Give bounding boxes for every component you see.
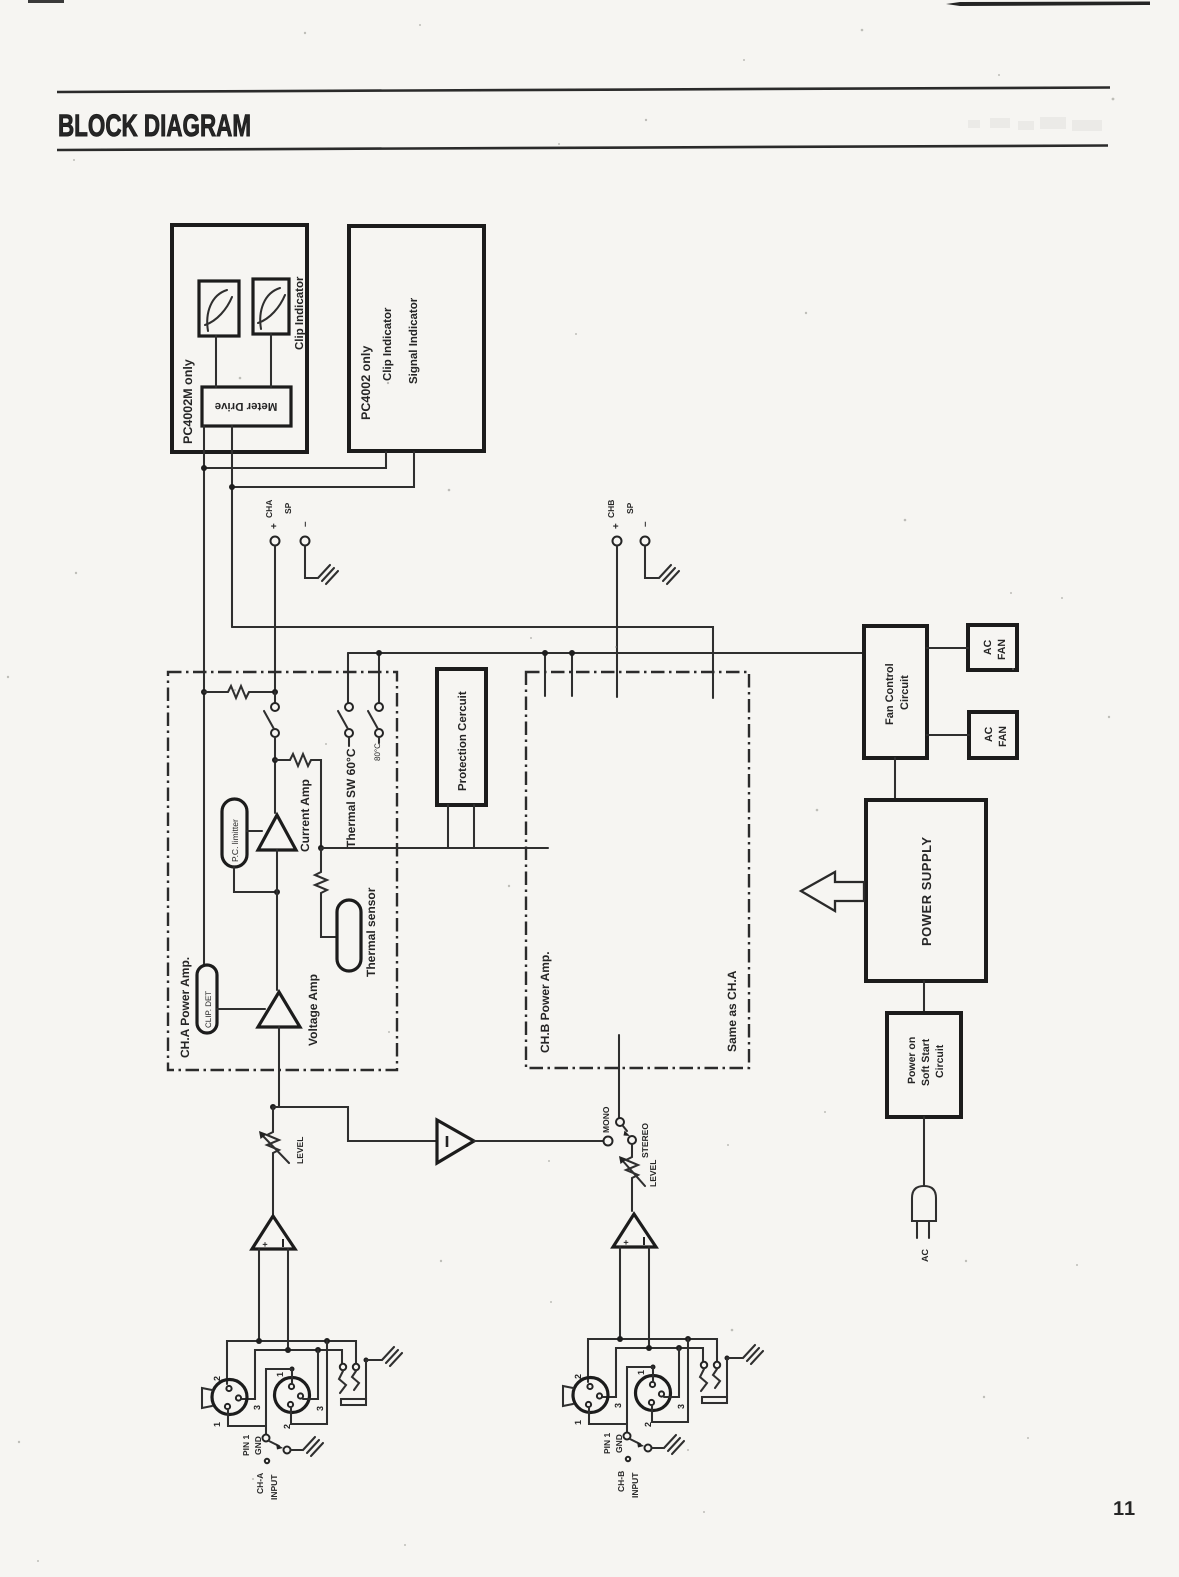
- svg-text:CLIP. DET: CLIP. DET: [204, 991, 213, 1028]
- svg-text:1: 1: [275, 1372, 285, 1377]
- svg-text:Fan Control: Fan Control: [884, 663, 896, 725]
- svg-text:GND: GND: [614, 1434, 624, 1453]
- svg-text:MONO: MONO: [601, 1106, 611, 1133]
- svg-text:INPUT: INPUT: [269, 1474, 279, 1500]
- svg-text:–: –: [300, 521, 311, 527]
- svg-text:Circuit: Circuit: [934, 1044, 946, 1078]
- svg-text:BLOCK DIAGRAM: BLOCK DIAGRAM: [58, 108, 251, 143]
- svg-text:PIN 1: PIN 1: [602, 1432, 612, 1454]
- svg-text:GND: GND: [253, 1436, 263, 1455]
- svg-text:Circuit: Circuit: [899, 675, 911, 710]
- svg-text:Meter Drive: Meter Drive: [215, 400, 278, 412]
- svg-text:Thermal sensor: Thermal sensor: [364, 887, 378, 977]
- svg-text:STEREO: STEREO: [640, 1123, 650, 1158]
- svg-text:CHB: CHB: [606, 500, 616, 518]
- svg-text:+: +: [269, 523, 280, 529]
- svg-text:Signal Indicator: Signal Indicator: [408, 297, 420, 384]
- svg-text:CHA: CHA: [264, 500, 274, 518]
- svg-text:3: 3: [315, 1406, 325, 1411]
- svg-text:Clip Indicator: Clip Indicator: [294, 276, 306, 350]
- svg-text:2: 2: [212, 1376, 222, 1381]
- svg-text:3: 3: [252, 1405, 262, 1410]
- svg-text:80°C: 80°C: [373, 743, 382, 761]
- svg-text:1: 1: [212, 1422, 222, 1427]
- svg-text:SP: SP: [625, 502, 635, 514]
- svg-text:Protection Cercuit: Protection Cercuit: [457, 691, 469, 791]
- svg-text:Current Amp: Current Amp: [298, 779, 312, 852]
- svg-text:FAN: FAN: [997, 726, 1009, 747]
- svg-text:CH-A: CH-A: [255, 1473, 265, 1494]
- svg-text:P.C. limitter: P.C. limitter: [230, 819, 240, 862]
- svg-text:SP: SP: [283, 502, 293, 514]
- svg-text:Thermal SW 60°C: Thermal SW 60°C: [344, 748, 358, 848]
- svg-text:CH.A Power Amp.: CH.A Power Amp.: [178, 957, 192, 1058]
- svg-text:–: –: [640, 521, 651, 527]
- svg-text:11: 11: [1113, 1498, 1136, 1520]
- svg-text:AC: AC: [920, 1249, 930, 1262]
- svg-text:Clip Indicator: Clip Indicator: [382, 307, 394, 381]
- svg-text:+: +: [260, 1242, 270, 1247]
- svg-text:PIN 1: PIN 1: [241, 1434, 251, 1456]
- svg-text:PC4002 only: PC4002 only: [359, 346, 373, 420]
- svg-text:CH-B: CH-B: [616, 1471, 626, 1492]
- svg-text:+: +: [611, 523, 622, 529]
- svg-text:LEVEL: LEVEL: [648, 1160, 658, 1187]
- svg-text:LEVEL: LEVEL: [295, 1137, 305, 1164]
- svg-text:AC: AC: [982, 639, 994, 655]
- svg-text:Voltage Amp: Voltage Amp: [306, 974, 320, 1046]
- svg-text:CH.B Power Amp.: CH.B Power Amp.: [538, 951, 552, 1053]
- svg-text:Soft Start: Soft Start: [920, 1038, 932, 1086]
- svg-text:PC4002M only: PC4002M only: [181, 359, 195, 444]
- svg-text:AC: AC: [983, 726, 995, 742]
- svg-text:INPUT: INPUT: [630, 1472, 640, 1498]
- svg-text:POWER SUPPLY: POWER SUPPLY: [919, 836, 934, 946]
- svg-text:Power on: Power on: [906, 1037, 918, 1084]
- svg-text:Same as CH.A: Same as CH.A: [725, 970, 739, 1052]
- svg-text:FAN: FAN: [996, 639, 1008, 660]
